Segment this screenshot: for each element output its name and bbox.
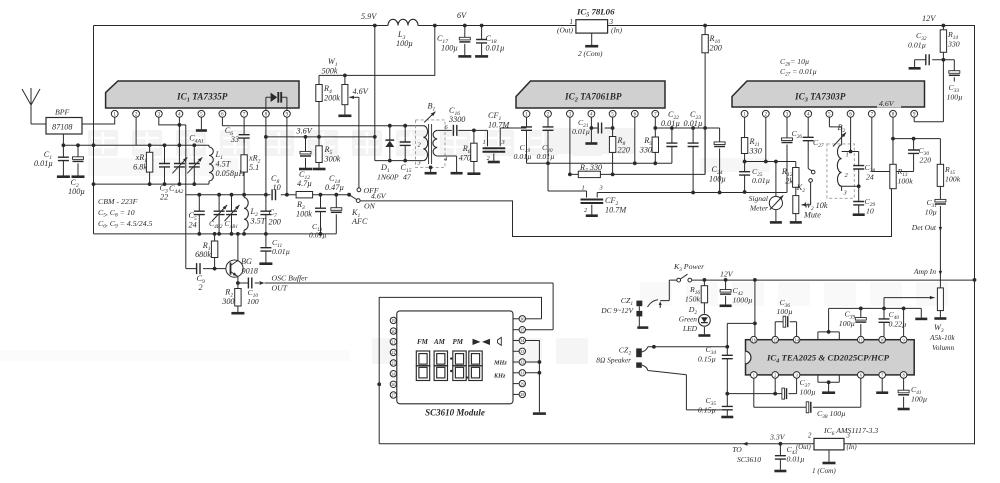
svg-text:(In): (In)	[611, 26, 623, 35]
ground pin7	[881, 378, 883, 391]
capacitor C5 24	[198, 195, 200, 234]
node emitter	[236, 281, 240, 285]
svg-text:100: 100	[247, 297, 259, 306]
wire IC6 com	[828, 450, 830, 462]
wire amp in	[939, 271, 942, 276]
svg-text:10.7M: 10.7M	[488, 121, 510, 130]
svg-text:0.01µ: 0.01µ	[572, 127, 590, 136]
svg-text:0.01µ: 0.01µ	[514, 152, 532, 161]
ground CZ1	[637, 326, 648, 329]
capacitor C17 100u	[464, 26, 466, 56]
svg-text:0.01µ: 0.01µ	[752, 176, 770, 185]
svg-text:0.01µ: 0.01µ	[661, 119, 680, 128]
potentiometer W2 10k mute	[795, 187, 797, 221]
svg-text:Volumn: Volumn	[932, 343, 954, 352]
capacitor C16 3300	[453, 125, 456, 136]
svg-text:220: 220	[618, 146, 630, 155]
svg-text:5.1: 5.1	[249, 163, 259, 172]
svg-text:6.8k: 6.8k	[133, 163, 147, 172]
svg-text:100k: 100k	[296, 210, 312, 219]
IC4 pins top	[751, 336, 758, 343]
wire pin35 OSC in	[526, 283, 554, 330]
resistor R6 470	[472, 129, 476, 133]
svg-text:0.01µ: 0.01µ	[684, 119, 703, 128]
diode inside IC1	[266, 97, 287, 110]
variable capacitor C4B1	[231, 195, 233, 234]
ground C11	[259, 262, 272, 265]
svg-text:32: 32	[520, 360, 524, 365]
capacitor C2 100u	[77, 145, 79, 175]
wire oscillator top bus	[186, 194, 349, 196]
svg-text:SC3610: SC3610	[737, 455, 761, 464]
transistor BG 9018	[226, 260, 243, 277]
resistor R14 330	[942, 26, 944, 60]
capacitor C23 0.01u	[692, 128, 694, 192]
svg-text:KHz: KHz	[493, 373, 506, 380]
wire pins 12 13 strap	[818, 332, 839, 340]
svg-text:100µ: 100µ	[396, 39, 413, 48]
svg-text:CBM - 223F: CBM - 223F	[98, 197, 138, 206]
display module inner box	[397, 311, 513, 404]
svg-text:2 (Com): 2 (Com)	[578, 49, 603, 58]
decor	[0, 128, 948, 364]
svg-text:OUT: OUT	[272, 284, 288, 293]
svg-text:PM: PM	[453, 338, 464, 346]
wire pin7 vcc line	[655, 127, 719, 129]
svg-text:21: 21	[391, 339, 395, 344]
svg-text:8Ω Speaker: 8Ω Speaker	[596, 356, 631, 365]
seven segment digits	[416, 351, 429, 381]
svg-text:TO: TO	[732, 445, 742, 454]
ground W1	[338, 115, 351, 118]
svg-text:0.01µ: 0.01µ	[486, 44, 505, 53]
svg-text:3300: 3300	[448, 115, 465, 124]
svg-text:24: 24	[189, 221, 197, 230]
wire W1 wiper 4.6V to K1 OFF	[349, 96, 359, 98]
svg-text:100µ: 100µ	[911, 395, 927, 404]
svg-text:5.9V: 5.9V	[361, 12, 377, 21]
wire RF bus	[63, 144, 209, 146]
capacitor C26 10u	[786, 117, 788, 192]
ground pin4	[590, 128, 592, 142]
svg-text:100µ: 100µ	[800, 388, 816, 397]
capacitor C18 0.01u	[480, 24, 484, 28]
svg-text:3: 3	[599, 185, 603, 192]
ground pins45	[822, 391, 835, 394]
capacitor C21 0.01u	[591, 117, 612, 128]
svg-text:100k: 100k	[898, 177, 914, 186]
capacitor C24 100u	[719, 128, 721, 192]
wire pin9 riser	[903, 308, 905, 336]
svg-text:3: 3	[417, 160, 421, 167]
wire 12V switched rail	[692, 279, 975, 281]
wire tank bottom bus	[94, 183, 210, 185]
svg-text:(Out): (Out)	[557, 26, 574, 35]
ground C29	[853, 213, 865, 216]
capacitor C41 100u	[903, 378, 905, 408]
capacitor C36 100u	[775, 322, 796, 337]
IC4 pins bottom	[751, 372, 758, 379]
svg-text:4.6V: 4.6V	[353, 87, 369, 96]
ground C12	[299, 168, 312, 171]
wire det out	[939, 227, 942, 232]
wire 5.9V feed down to D1 rail	[375, 26, 419, 161]
svg-text:100µ: 100µ	[947, 93, 963, 102]
svg-text:100µ: 100µ	[709, 175, 726, 184]
bandpass filter BPF 87108	[46, 118, 82, 135]
module pins left	[390, 319, 396, 321]
IC2 pins	[523, 110, 530, 117]
wire CF2 input	[548, 163, 587, 191]
resistor R8 220	[612, 117, 614, 174]
svg-text:1: 1	[753, 373, 755, 378]
resistor R16 150k	[703, 280, 705, 314]
transformer B1	[416, 120, 446, 167]
svg-text:1: 1	[582, 185, 585, 192]
wire CZ2 tip to C34	[654, 346, 727, 348]
svg-text:OSC Buffer: OSC Buffer	[272, 274, 309, 283]
capacitor C40 0.22u	[883, 308, 885, 336]
capacitor C39 100u	[860, 308, 862, 336]
svg-text:10: 10	[273, 183, 281, 192]
capacitor C10 100	[238, 282, 259, 284]
connector CZ1 DC jack	[660, 280, 677, 301]
wire pin6 riser	[634, 117, 636, 163]
wire IC5 pin2	[591, 33, 593, 45]
resistor R1 680k	[214, 234, 216, 269]
resistor R15 100k	[939, 139, 941, 200]
svg-text:100k: 100k	[945, 175, 961, 184]
resistor R12 2k	[793, 168, 799, 188]
svg-text:2: 2	[199, 283, 203, 292]
resistor xR1 6.8k	[148, 143, 152, 147]
ground IC5 com	[585, 45, 598, 48]
ground C42	[720, 304, 732, 307]
LED D2 green	[699, 314, 711, 326]
capacitor C3 22	[163, 143, 167, 147]
svg-text:10: 10	[866, 207, 874, 216]
diode D1 1N60P	[388, 124, 392, 128]
svg-text:150k: 150k	[685, 295, 701, 304]
ground C1	[57, 175, 70, 178]
resistor R2 300	[237, 283, 239, 312]
transformer B2	[827, 144, 854, 198]
svg-text:33: 33	[230, 135, 239, 144]
wire OSC buffer out	[260, 281, 265, 285]
ground R2	[231, 312, 244, 315]
wire IC2-IC3 signal bus	[691, 191, 695, 195]
svg-text:BPF: BPF	[55, 108, 70, 117]
svg-text:0.15µ: 0.15µ	[698, 406, 716, 415]
wire pin34 ground chain	[526, 341, 540, 413]
svg-text:22: 22	[160, 193, 168, 202]
wire pin8 riser	[265, 117, 267, 195]
node 12V	[942, 24, 946, 28]
capacitor C11 0.01u	[265, 234, 267, 263]
connector CZ2 speaker jack	[636, 348, 642, 357]
wire L3 right riser to W1 line	[319, 26, 435, 76]
svg-text:1: 1	[846, 152, 849, 159]
svg-text:MHz: MHz	[493, 360, 507, 367]
resistor R10 200	[703, 24, 707, 28]
wire BPF out to pin1	[82, 117, 115, 124]
capacitor C19 0.01u	[526, 117, 528, 163]
wire 3.6V line	[266, 136, 375, 138]
wire pin2 line	[774, 378, 776, 393]
svg-text:500k: 500k	[322, 67, 338, 76]
capacitor C12 4.7u	[305, 137, 307, 168]
ground C17	[458, 55, 471, 58]
svg-text:2: 2	[774, 373, 776, 378]
variable capacitor C4A1	[192, 143, 196, 147]
svg-text:Det Out: Det Out	[911, 223, 937, 232]
svg-text:ON: ON	[364, 202, 376, 211]
capacitor C37 100u	[782, 388, 785, 399]
ground module	[533, 412, 546, 415]
resistor R4 200k	[318, 75, 320, 136]
svg-text:0.01µ: 0.01µ	[787, 455, 805, 464]
wire oscillator bottom bus	[94, 233, 337, 235]
svg-text:6V: 6V	[457, 11, 467, 20]
node 6V	[463, 24, 467, 28]
svg-text:Green: Green	[679, 315, 697, 324]
inductor L3	[388, 19, 418, 25]
ground C41	[898, 408, 910, 411]
resistor R3 100k	[296, 192, 313, 198]
wire pin16 12V riser	[754, 280, 756, 337]
resistor R5 300k	[318, 137, 320, 168]
capacitor C35 0.15u	[686, 394, 727, 416]
svg-text:200: 200	[269, 218, 281, 227]
ground B1 core	[429, 166, 433, 170]
svg-text:12V: 12V	[720, 270, 734, 279]
svg-text:Signal: Signal	[749, 194, 768, 203]
svg-text:100µ: 100µ	[441, 44, 458, 53]
potentiometer W3 volume	[937, 288, 943, 311]
ground C43	[774, 470, 786, 473]
capacitor C32 0.01u	[915, 60, 944, 67]
svg-text:4.6V: 4.6V	[879, 99, 895, 108]
ground C2	[72, 175, 85, 178]
svg-text:FM: FM	[417, 338, 429, 346]
svg-text:24: 24	[866, 173, 874, 182]
svg-text:680k: 680k	[195, 250, 211, 259]
potentiometer W1 500k	[343, 74, 347, 78]
svg-text:1N60P: 1N60P	[377, 173, 399, 182]
switch K1 AFC	[357, 188, 361, 192]
antenna	[22, 88, 46, 124]
wire pin6 line to detector	[222, 117, 418, 126]
svg-text:4.6V: 4.6V	[371, 192, 387, 201]
svg-text:300: 300	[221, 297, 234, 306]
wire pin36	[526, 318, 542, 320]
resistor R13 100k	[892, 139, 894, 165]
ground bias	[915, 318, 927, 321]
wire pin7 riser	[243, 117, 245, 135]
inductor L1 4.5T	[208, 145, 210, 184]
wire pin7 riser	[872, 117, 914, 171]
svg-text:47: 47	[403, 173, 412, 182]
svg-text:0.01µ: 0.01µ	[34, 159, 53, 168]
wire pin2 riser	[135, 117, 137, 145]
svg-text:AFC: AFC	[351, 217, 368, 226]
svg-text:200k: 200k	[324, 94, 340, 103]
module pins right	[513, 318, 520, 320]
wire BPF bottom to bus	[62, 134, 64, 145]
svg-text:3.5T: 3.5T	[250, 217, 267, 226]
resistor xR2 5.1	[243, 138, 245, 195]
ground D2	[703, 327, 705, 334]
switch K2	[811, 170, 815, 174]
capacitor C1 0.01u	[62, 145, 64, 175]
resistor R9 330	[654, 117, 656, 163]
switch K3 power	[677, 278, 681, 282]
svg-text:10µ: 10µ	[925, 208, 937, 217]
svg-text:DC 9~12V: DC 9~12V	[600, 306, 634, 315]
variable capacitor C4B2	[218, 195, 220, 234]
IC1 pins	[111, 110, 118, 117]
svg-text:SC3610 Module: SC3610 Module	[425, 408, 485, 418]
wire TO SC3610 arrow	[743, 442, 748, 446]
svg-text:(In): (In)	[847, 444, 858, 451]
wire top bias line	[829, 308, 922, 317]
ground meter	[770, 221, 782, 224]
wire pin8 vcc line	[893, 117, 940, 138]
svg-text:4.5T: 4.5T	[216, 160, 232, 169]
wire pin3 riser	[569, 117, 571, 174]
signal meter	[775, 162, 777, 197]
IC3 pins	[741, 110, 748, 117]
svg-text:Meter: Meter	[749, 204, 768, 213]
svg-text:A5k-10k: A5k-10k	[929, 333, 955, 342]
wire AFC line	[360, 189, 891, 237]
node 5.9V	[373, 24, 377, 28]
capacitor C28 24	[850, 117, 852, 151]
capacitor C15 47	[403, 124, 407, 128]
svg-text:330: 330	[749, 147, 762, 156]
svg-text:87108: 87108	[52, 123, 72, 132]
variable capacitor C4A2	[178, 143, 182, 147]
svg-text:300k: 300k	[324, 155, 341, 164]
wire pin4 to oscillator column	[179, 125, 185, 269]
ground C18	[475, 55, 488, 58]
wire IC6 in	[844, 443, 975, 445]
op-amp IC1 TA7335P body	[106, 81, 299, 108]
amplifier IC4 TEA2025 body	[746, 340, 915, 375]
ground C35	[721, 416, 733, 419]
svg-text:330: 330	[639, 146, 652, 155]
wire pin9 to 12V	[914, 60, 943, 122]
ground C32	[909, 67, 921, 70]
svg-text:2k: 2k	[785, 177, 793, 186]
svg-text:200: 200	[710, 44, 722, 53]
svg-text:3.6V: 3.6V	[296, 127, 313, 136]
wire pin3 to pin4 riser	[159, 117, 180, 125]
svg-text:22: 22	[391, 350, 395, 355]
wire pin4 riser	[178, 117, 180, 145]
svg-text:470: 470	[459, 154, 471, 163]
svg-text:0.01µ: 0.01µ	[537, 152, 555, 161]
svg-text:2: 2	[808, 433, 812, 440]
ceramic filter CF1 10.7M	[474, 128, 527, 146]
capacitor C42 1000u	[725, 280, 727, 305]
svg-text:1000µ: 1000µ	[733, 296, 753, 305]
svg-text:220: 220	[920, 156, 932, 165]
capacitor C27 0.01u	[807, 117, 809, 168]
resistor R11 330	[744, 117, 746, 161]
ground R5	[313, 168, 326, 171]
svg-text:3: 3	[843, 190, 847, 197]
op-amp IC2 TA7061BP body	[516, 81, 665, 108]
capacitor C25 0.01u	[744, 162, 746, 193]
svg-text:BG: BG	[241, 257, 252, 266]
wire pin1 pin2 link	[743, 160, 747, 164]
resistor R7 330	[570, 128, 705, 174]
svg-text:0.01µ: 0.01µ	[309, 231, 327, 240]
capacitor C30 220	[913, 139, 915, 172]
svg-text:330: 330	[947, 40, 960, 49]
ground B1 secondary	[451, 172, 463, 175]
svg-text:Amp In: Amp In	[913, 267, 936, 276]
capacitor C43 0.01u	[779, 444, 781, 470]
capacitor C20 0.01u	[547, 117, 549, 163]
svg-text:11: 11	[859, 337, 863, 342]
ceramic filter CF2 10.7M	[587, 191, 787, 198]
inductor L2 3.5T	[243, 195, 245, 234]
svg-text:3: 3	[501, 139, 505, 146]
svg-text:100µ: 100µ	[777, 307, 793, 316]
capacitor C8 10	[272, 189, 275, 200]
svg-text:10.7M: 10.7M	[605, 206, 627, 215]
svg-text:0.15µ: 0.15µ	[698, 355, 716, 364]
wire W3 wiper	[883, 298, 885, 309]
capacitor C9 2	[186, 268, 215, 270]
svg-text:100µ: 100µ	[839, 319, 855, 328]
svg-text:4.7µ: 4.7µ	[297, 179, 312, 188]
op-amp IC3 TA7303P body	[732, 81, 925, 107]
capacitor C29 10	[858, 186, 860, 213]
wire IC2 gnd bus	[527, 162, 672, 164]
svg-text:(Out): (Out)	[796, 444, 811, 451]
svg-text:1: 1	[483, 139, 486, 146]
capacitor C13 0.01u	[320, 195, 322, 234]
wire pin5 to ground	[200, 117, 202, 129]
wire 6V/12V top rail	[94, 26, 975, 445]
capacitor C14 0.47u	[335, 195, 337, 234]
svg-text:AM: AM	[433, 338, 446, 346]
svg-text:0.01µ: 0.01µ	[272, 247, 290, 256]
regulator IC6 AMS1117-3.3	[814, 438, 844, 450]
capacitor C6 33	[243, 138, 245, 143]
wire pin1 pin6 loop C38	[754, 378, 861, 407]
ground R6	[467, 172, 480, 175]
ground W2	[790, 221, 802, 224]
svg-text:LED: LED	[682, 324, 698, 333]
svg-text:9018: 9018	[242, 267, 258, 276]
capacitor C22 0.01u	[671, 128, 673, 163]
svg-text:3: 3	[846, 433, 851, 440]
svg-text:3.3V: 3.3V	[769, 433, 786, 442]
node 3.3V	[779, 442, 783, 446]
svg-text:12V: 12V	[922, 14, 936, 23]
svg-text:31: 31	[520, 371, 524, 376]
svg-text:1 (Com): 1 (Com)	[812, 467, 836, 475]
wire base	[215, 268, 229, 270]
wire module outer left and bottom 3.3V	[379, 297, 814, 443]
capacitor C33 100u	[943, 60, 954, 82]
wire left supply drop	[93, 26, 95, 234]
svg-text:0.01µ: 0.01µ	[908, 41, 926, 50]
